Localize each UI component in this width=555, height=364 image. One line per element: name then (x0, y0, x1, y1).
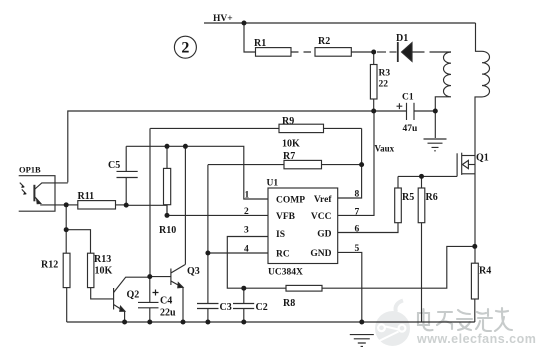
node R2 R3 junction (371, 50, 376, 55)
svg-text:Q2: Q2 (127, 290, 140, 301)
node C2 IS junction (241, 286, 246, 291)
svg-text:47u: 47u (403, 124, 419, 134)
wire VFB jog (126, 205, 268, 215)
svg-text:R9: R9 (282, 116, 294, 127)
wire gate line (398, 175, 457, 177)
wire Vaux line C1 (374, 110, 436, 112)
svg-text:C3: C3 (220, 302, 232, 313)
svg-text:COMP: COMP (276, 196, 305, 206)
svg-text:UC384X: UC384X (268, 268, 303, 278)
svg-text:GD: GD (317, 230, 331, 240)
node bus C3 (205, 320, 210, 325)
svg-text:R8: R8 (283, 298, 295, 309)
wire ground bus (67, 321, 475, 323)
svg-text:U1: U1 (267, 179, 279, 189)
svg-text:Q3: Q3 (187, 266, 200, 277)
node R3 Vaux junction (371, 109, 376, 114)
svg-text:10K: 10K (95, 266, 113, 277)
resistor R8 (286, 246, 475, 291)
node R10 top (165, 144, 170, 149)
wire opto emitter node down (65, 205, 67, 253)
wire C1 node to winding and ground (434, 111, 436, 138)
svg-text:Q1: Q1 (476, 153, 489, 164)
node bus C2 (241, 320, 246, 325)
wire Q3 collector vertical (184, 146, 186, 264)
svg-text:R1: R1 (254, 38, 266, 49)
wire R2 to node (351, 51, 373, 53)
svg-text:R3: R3 (379, 69, 391, 79)
node Q3 collector top (183, 144, 188, 149)
ground near C1 (424, 139, 447, 151)
capacitor C2 (233, 288, 254, 322)
wire D1 to primary winding (412, 51, 451, 53)
ground symbol main (350, 335, 374, 347)
svg-text:2: 2 (244, 207, 249, 217)
svg-text:OP1B: OP1B (19, 165, 41, 175)
svg-text:2: 2 (181, 40, 189, 57)
resistor R9 (150, 124, 361, 132)
watermark logo circle (375, 301, 410, 347)
node RC pin4 junction (205, 251, 210, 256)
node Q3 base junction (147, 274, 152, 279)
svg-text:C1: C1 (402, 93, 414, 103)
wire R7 corner down RC C3 (207, 165, 209, 304)
transformer primary winding (435, 52, 451, 111)
resistor R2 (315, 48, 351, 57)
svg-text:R10: R10 (159, 225, 176, 236)
node C1 winding junction (433, 109, 438, 114)
svg-text:4: 4 (244, 245, 249, 255)
resistor R3 (370, 52, 377, 111)
op-amp U1 UC384X box (268, 188, 338, 264)
wire dashed node to D1 (377, 51, 386, 53)
wire top-left rail (68, 111, 374, 182)
wire GD pin6 to R5 (338, 223, 398, 233)
diode D1 (398, 42, 412, 62)
wire line-A COMP net (126, 146, 268, 199)
transformer secondary winding (475, 23, 490, 263)
resistor R4 (471, 263, 478, 322)
node R10 bottom VFB (165, 213, 170, 218)
capacitor C1 (397, 103, 415, 120)
node R12 R13 junction (64, 227, 69, 232)
svg-text:22: 22 (379, 80, 389, 90)
node bus ground (359, 320, 364, 325)
svg-text:Vref: Vref (314, 195, 332, 205)
svg-text:6: 6 (355, 225, 360, 235)
node R7 Vref junction (359, 162, 364, 167)
svg-text:R12: R12 (41, 260, 58, 271)
resistor R12 (63, 253, 70, 322)
svg-text:1: 1 (245, 191, 250, 201)
svg-text:10K: 10K (282, 139, 300, 150)
svg-text:8: 8 (355, 190, 360, 200)
wire Vaux vertical to pin7 (338, 111, 374, 215)
resistor R1 (256, 48, 292, 57)
wire RC pin4 (208, 252, 268, 254)
node HV junction (242, 21, 247, 26)
wire HV+ rail (204, 22, 476, 24)
node R4 top junction (472, 244, 477, 249)
resistor R13 (88, 253, 114, 299)
svg-text:R11: R11 (78, 191, 95, 202)
svg-text:VFB: VFB (276, 212, 296, 222)
svg-text:VCC: VCC (311, 212, 332, 222)
resistor R6 (418, 176, 425, 322)
svg-text:www.elecfans.com: www.elecfans.com (416, 332, 536, 346)
svg-text:R5: R5 (402, 192, 414, 203)
svg-text:RC: RC (276, 250, 290, 260)
node C5 R11 junction (124, 203, 129, 208)
resistor R5 (395, 176, 402, 222)
svg-text:IS: IS (276, 230, 285, 240)
svg-text:R4: R4 (479, 266, 491, 277)
capacitor C5 (117, 146, 138, 205)
watermark chinese characters (418, 308, 512, 331)
svg-text:Vaux: Vaux (375, 144, 395, 154)
label circled 2 (174, 36, 196, 58)
node bus Q3 (181, 320, 186, 325)
transistor Q2 (114, 277, 150, 322)
svg-text:22u: 22u (160, 308, 176, 319)
svg-text:7: 7 (355, 208, 360, 218)
wire dashed R1-R2 (291, 51, 315, 53)
svg-text:GND: GND (310, 249, 331, 259)
wire Q3 collector join (184, 263, 187, 265)
wire drop HV+ to R1 (244, 23, 256, 52)
svg-text:C4: C4 (160, 296, 172, 307)
node bus C4 (147, 320, 152, 325)
svg-text:R2: R2 (318, 36, 330, 47)
wire R9 left drop to Q3 base (149, 128, 151, 276)
svg-text:HV+: HV+ (213, 14, 233, 24)
svg-text:C5: C5 (108, 160, 120, 171)
optocoupler OP1B (19, 176, 68, 212)
wire IS pin3 loop (227, 237, 286, 289)
capacitor C4 (138, 277, 159, 322)
node opto emitter junction (64, 202, 69, 207)
resistor R11 (66, 201, 126, 209)
resistor R7 (208, 160, 362, 168)
node bus Q2 (122, 320, 127, 325)
capacitor C3 (197, 304, 219, 323)
svg-text:R13: R13 (94, 254, 111, 265)
node gate R6 junction (419, 174, 424, 179)
svg-text:D1: D1 (396, 33, 408, 44)
transistor Q3 (150, 265, 185, 322)
transistor Q1 mosfet (457, 153, 475, 177)
svg-text:R6: R6 (426, 192, 438, 203)
resistor R10 (164, 146, 171, 215)
wire Vref vertical to pin8 (338, 128, 362, 198)
wire pin5 to ground (338, 252, 362, 322)
label plus C4 (153, 290, 159, 296)
svg-text:C2: C2 (256, 302, 268, 313)
wire R12 R13 branch (66, 230, 90, 254)
svg-text:3: 3 (244, 226, 249, 236)
svg-text:R7: R7 (283, 151, 295, 162)
svg-text:5: 5 (355, 244, 360, 254)
